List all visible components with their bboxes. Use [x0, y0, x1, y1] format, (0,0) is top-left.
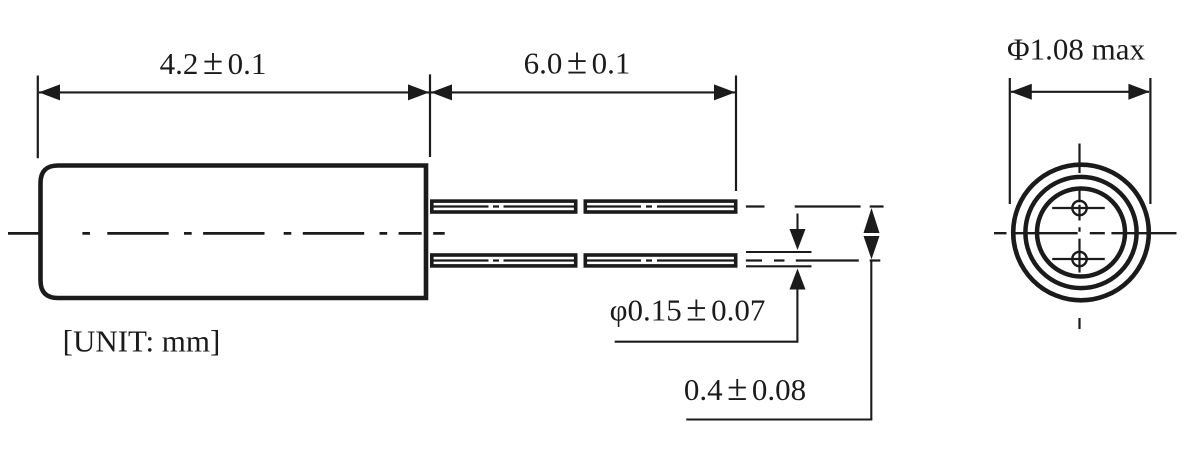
0.4 dim double arrow down head: [864, 236, 880, 259]
bottom lead centerline (dash-dot, continues right): [432, 259, 881, 261]
extension line middle (body right edge, shared): [429, 74, 431, 157]
end view: outer circle: [1013, 165, 1149, 301]
svg-text:6.0±0.1: 6.0±0.1: [524, 42, 631, 83]
bottom lead segment 1: [432, 255, 576, 266]
svg-text:Φ1.08 max: Φ1.08 max: [1007, 31, 1146, 66]
end view: dimension line: [1011, 91, 1149, 93]
phi0.15 extension line bottom (lead lower edge): [746, 265, 812, 267]
extension line right (6.0 dim, lead end): [735, 76, 737, 192]
end view: lower hole crosshair: [1052, 258, 1105, 260]
end view: horizontal centerline segments: [994, 232, 1177, 234]
arrowhead left of 6.0 dim: [431, 84, 452, 100]
0.4 leader underline: [686, 418, 872, 420]
bottom lead segment 2: [585, 255, 735, 266]
end view: extension line left: [1009, 78, 1011, 204]
svg-text:φ0.15±0.07: φ0.15±0.07: [610, 288, 766, 329]
arrowhead right of 4.2 dim: [408, 84, 429, 100]
phi0.15 leader underline: [615, 341, 799, 343]
end view: lower lead hole: [1072, 252, 1086, 266]
arrowhead left of 4.2 dim: [39, 84, 60, 100]
crystal body (side view cylinder outline): [41, 166, 427, 299]
svg-text:0.4±0.08: 0.4±0.08: [684, 368, 806, 409]
top lead centerline (dash-dot, continues right): [432, 205, 884, 207]
phi0.15 lower arrow (points up): [790, 269, 806, 290]
0.4 dim double arrow up head: [864, 208, 880, 233]
phi0.15 upper arrow (points down): [796, 214, 798, 233]
end view: inner circle: [1037, 189, 1125, 277]
dimension line 4.2: [39, 91, 429, 93]
dimension line 6.0: [431, 91, 735, 93]
top lead segment 1: [432, 201, 576, 212]
end view: extension line right: [1149, 78, 1151, 204]
extension line left (4.2 dim): [37, 76, 39, 159]
end view: upper lead hole: [1072, 201, 1086, 215]
end view: upper hole crosshair: [1052, 207, 1105, 209]
svg-text:[UNIT: mm]: [UNIT: mm]: [63, 324, 221, 359]
end view: middle circle: [1025, 177, 1136, 288]
body centerline (dash-dot): [8, 232, 445, 235]
svg-text:4.2±0.1: 4.2±0.1: [160, 42, 267, 83]
0.4 leader vertical: [870, 260, 872, 420]
end view: vertical centerline: [1078, 144, 1080, 330]
arrowhead right of 6.0 dim: [714, 84, 735, 100]
end view: arrowhead left: [1011, 84, 1032, 100]
top lead segment 2: [585, 201, 735, 212]
phi0.15 extension line top (lead upper edge): [746, 251, 812, 253]
end view: arrowhead right: [1128, 84, 1149, 100]
